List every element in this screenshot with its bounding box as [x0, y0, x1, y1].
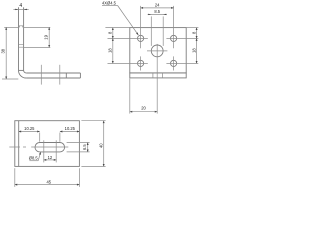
hole BL: [138, 60, 144, 66]
extension 8.5 left: [150, 16, 152, 46]
svg-text:18: 18: [108, 48, 113, 53]
svg-text:20: 20: [141, 105, 146, 110]
extension 6.5 bottom: [67, 151, 90, 153]
wire horizontal leg bottom edge: [26, 77, 80, 79]
centerline col left lower: [140, 56, 142, 70]
extension 10.25 right inner: [59, 133, 61, 142]
svg-text:Ø8.5: Ø8.5: [29, 156, 39, 161]
svg-text:45: 45: [47, 179, 52, 184]
centerline center hole horizontal: [147, 50, 167, 52]
wire vertical leg right edge: [23, 7, 25, 70]
hidden hole upper in leg: [19, 26, 24, 28]
svg-text:19: 19: [43, 34, 48, 39]
dim 40 line: [103, 121, 105, 167]
svg-text:12: 12: [48, 155, 53, 160]
extension 40 bottom: [81, 165, 105, 167]
dim 10.25 right line: [60, 131, 80, 133]
slot outline: [35, 143, 65, 152]
slot centerline horizontal: [9, 146, 68, 148]
center hole: [151, 45, 163, 57]
centerline row2 left: [108, 62, 148, 64]
extension 45 right: [78, 168, 80, 187]
wire right end cap: [79, 73, 81, 78]
strip (vertical leg edge): [130, 73, 186, 78]
extension 20 left: [129, 79, 131, 114]
extension 12 right: [55, 140, 57, 162]
hole BR: [171, 60, 177, 66]
extension top right: [186, 27, 198, 29]
leader 4xd4.5: [102, 5, 118, 7]
centerline hole row 2: [59, 65, 61, 85]
wire bend tangent cap: [19, 69, 24, 71]
wire step line in leg: [65, 73, 67, 78]
centerline row2 right: [166, 62, 198, 64]
hole TR: [171, 35, 177, 41]
extension line top left: [4, 26, 18, 28]
wire inner bend arc: [24, 70, 27, 73]
wire vertical leg left edge: [18, 7, 20, 70]
centerline row1 right: [166, 37, 198, 39]
svg-text:8.5: 8.5: [154, 9, 160, 14]
svg-text:4: 4: [19, 3, 22, 9]
centerline col right lower: [173, 56, 175, 70]
centerline row1 left: [108, 37, 148, 39]
svg-text:10.25: 10.25: [65, 126, 76, 131]
dim 20 line: [130, 111, 157, 113]
dim 4 arrows: [15, 9, 27, 10]
centerline col left: [140, 6, 142, 48]
wire outer bend arc: [19, 70, 27, 78]
dim 45 line: [15, 184, 80, 186]
centerline hole row 1: [40, 65, 42, 85]
extension 12 left: [43, 140, 45, 162]
extension 45 left: [14, 168, 16, 187]
dim 38 line: [5, 27, 7, 79]
svg-text:10.25: 10.25: [24, 126, 35, 131]
dim 8 left line: [112, 28, 114, 39]
dim 8.5 line: [148, 13, 167, 15]
centerline col right: [173, 6, 175, 48]
svg-text:24: 24: [155, 2, 160, 7]
extension top left: [105, 27, 129, 29]
extension 6.5 top: [67, 142, 90, 144]
dim 10.25 left line: [19, 131, 40, 133]
dim 19 line: [48, 27, 50, 47]
inner left edge line: [18, 121, 20, 167]
hidden slot edges in strip: [153, 73, 163, 78]
dim 24 line: [141, 7, 174, 9]
dim 12 line: [44, 159, 56, 161]
front plate outline: [15, 121, 80, 167]
extension line 19 bottom: [24, 46, 51, 48]
wire horizontal leg top edge: [26, 72, 80, 74]
dim 8 right line: [196, 28, 198, 39]
extension line top right: [24, 26, 51, 28]
svg-text:4XØ4.5: 4XØ4.5: [102, 1, 117, 6]
dim 4 line: [13, 8, 28, 10]
extension 10.25 left inner: [39, 133, 41, 142]
hidden hole lower in leg: [19, 45, 24, 48]
extension line 38 bottom: [2, 78, 18, 80]
centerline center hole vertical long: [156, 44, 158, 114]
svg-text:6.5: 6.5: [82, 144, 87, 150]
extension 8.5 right: [162, 16, 164, 46]
hole TL: [138, 35, 144, 41]
dim 6.5 line: [87, 143, 89, 152]
svg-text:18: 18: [191, 48, 196, 53]
dim 18 right line: [196, 38, 198, 63]
svg-text:38: 38: [1, 48, 6, 53]
plate outline: [130, 28, 186, 73]
svg-text:40: 40: [98, 143, 103, 148]
leader d8.5: [29, 160, 38, 162]
dim 18 left line: [112, 38, 114, 63]
extension 40 top: [81, 120, 105, 122]
